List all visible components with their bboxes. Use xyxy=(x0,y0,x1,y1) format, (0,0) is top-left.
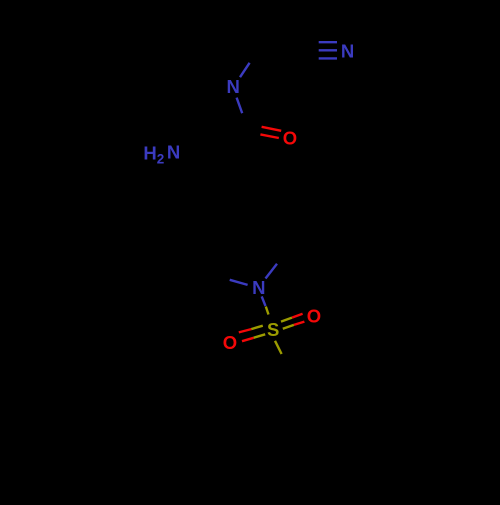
wire: nitrile triple bond line bottom xyxy=(319,57,337,59)
wire: bond N(amide)-C(O) blue half xyxy=(237,98,243,114)
wire: C=O double bond upper red half xyxy=(262,127,282,131)
svg-text:O: O xyxy=(223,332,237,353)
wire: S=O right double bond upper olive half xyxy=(281,318,292,322)
wire: S=O left double bond lower red half xyxy=(242,338,254,341)
wire: bond N(amide)-CH2 blue half xyxy=(240,63,250,77)
svg-text:2: 2 xyxy=(157,152,165,167)
wire: N-S bond olive half xyxy=(266,307,269,315)
wire: S-CH3 bond olive half xyxy=(275,341,282,354)
svg-text:N: N xyxy=(227,76,240,97)
wire: ring N up-left bond blue half xyxy=(230,280,248,285)
wire: S=O right double bond lower olive half xyxy=(283,325,294,329)
wire: C=O double bond lower red half xyxy=(260,134,278,138)
wire: nitrile triple bond line top xyxy=(319,41,337,43)
svg-text:S: S xyxy=(267,319,279,340)
wire: S=O left double bond upper olive half xyxy=(251,326,263,329)
wire: S=O left double bond lower olive half xyxy=(254,334,266,338)
svg-text:O: O xyxy=(283,127,297,148)
svg-text:N: N xyxy=(167,141,180,162)
svg-text:H: H xyxy=(143,142,156,163)
wire: S=O right double bond lower red half xyxy=(294,322,305,325)
wire: ring N up-right bond blue half xyxy=(266,264,278,279)
wire: nitrile triple bond line middle xyxy=(319,49,337,51)
wire: N-S bond blue half xyxy=(262,296,266,306)
wire: S=O left double bond upper red half xyxy=(239,329,251,332)
wire: S=O right double bond upper red half xyxy=(292,314,303,318)
svg-text:N: N xyxy=(252,277,265,298)
svg-text:O: O xyxy=(307,305,321,326)
svg-text:N: N xyxy=(341,41,354,62)
